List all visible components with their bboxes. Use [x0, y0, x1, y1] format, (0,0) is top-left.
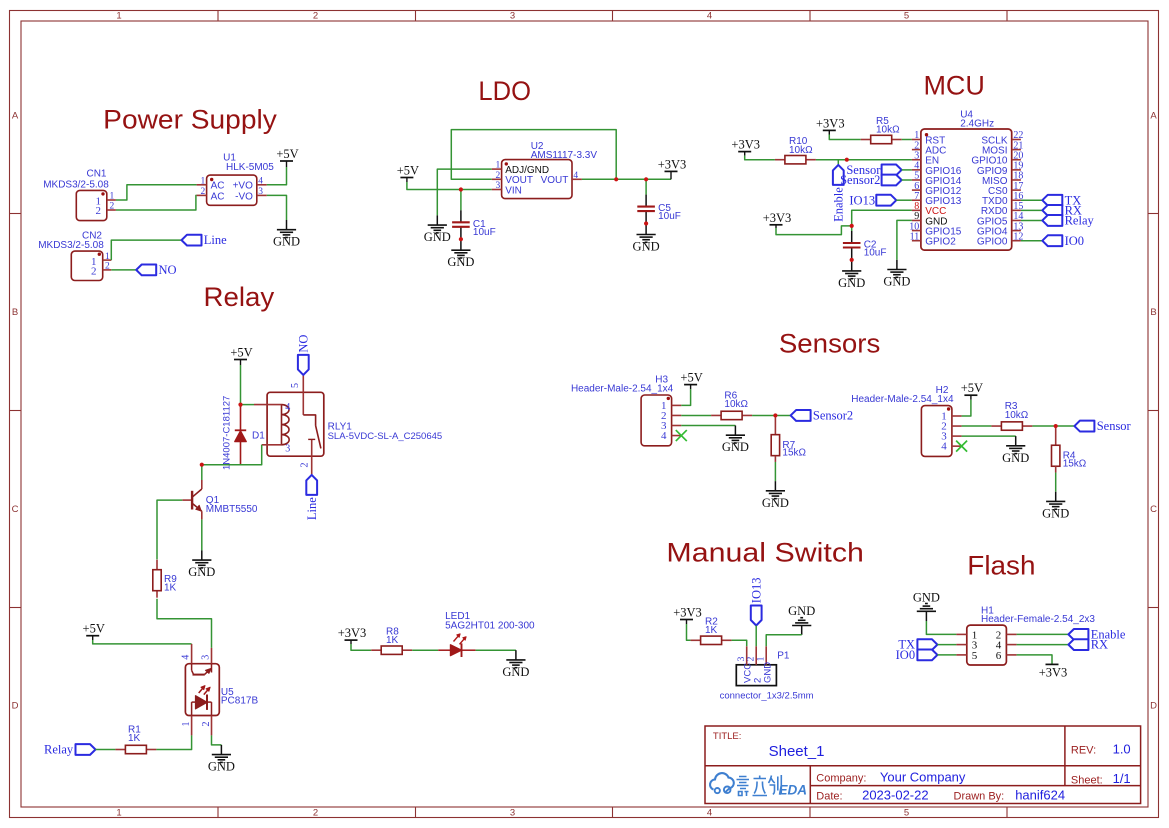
net flag IO0: [917, 650, 937, 661]
svg-text:+3V3: +3V3: [816, 116, 845, 130]
H2 pin 4 no-connect X: [956, 441, 967, 452]
junction: [200, 463, 204, 467]
svg-text:3: 3: [258, 187, 263, 197]
svg-text:EDA: EDA: [779, 783, 808, 798]
junction: [238, 403, 242, 407]
svg-text:hanif624: hanif624: [1015, 788, 1065, 803]
U4 pin 9 GND: [912, 219, 921, 221]
svg-text:2: 2: [91, 266, 97, 278]
net flag Line: [182, 235, 202, 246]
power flag +5V: [400, 177, 413, 179]
svg-text:2: 2: [313, 10, 318, 21]
wire H2.2 to R3: [962, 425, 992, 427]
wire U4.14 GPIO5 to Relay: [1021, 219, 1042, 221]
net flag Line: [306, 475, 317, 495]
svg-text:+3V3: +3V3: [731, 138, 760, 152]
U5 pin 1: [191, 716, 193, 736]
CN1 pin 2: [107, 209, 116, 211]
svg-text:1N4007-C181127: 1N4007-C181127: [222, 396, 233, 470]
svg-text:3: 3: [510, 10, 515, 21]
net flag IO13: [876, 195, 896, 206]
ground GND: [645, 224, 647, 225]
ground GND: [1015, 436, 1017, 446]
U4 pin 14 GPIO5: [1012, 219, 1021, 221]
wire R2 to P1.3: [732, 640, 747, 646]
svg-text:B: B: [1150, 307, 1156, 318]
wire GND to P1.1: [801, 626, 803, 635]
U4 pin 4 GPIO16: [912, 169, 921, 171]
svg-text:GND: GND: [913, 591, 940, 605]
wire +5V to U2.3 VIN: [407, 182, 492, 190]
svg-text:Relay: Relay: [1065, 214, 1095, 228]
wire IO0 to H1.5: [937, 654, 956, 656]
U1 pin 3 -VO: [257, 194, 267, 196]
svg-text:3: 3: [201, 655, 212, 660]
svg-text:VOUT: VOUT: [541, 175, 569, 186]
U5 pin 3: [211, 648, 213, 664]
H1 pin 2: [1006, 633, 1016, 635]
wire U2.1 ADJ to GND: [437, 169, 492, 215]
U4 pin 19 GPIO9: [1012, 169, 1021, 171]
power flag +3V3: [345, 639, 358, 641]
svg-text:10uF: 10uF: [473, 227, 496, 238]
svg-text:5: 5: [290, 383, 301, 388]
svg-text:1: 1: [201, 176, 206, 186]
wire R10 to U4.3 EN: [816, 159, 912, 161]
svg-text:10kΩ: 10kΩ: [1005, 410, 1029, 421]
svg-text:2: 2: [300, 463, 311, 468]
wire U4.9 GND to ground: [897, 220, 912, 259]
junction: [459, 237, 463, 241]
svg-text:3: 3: [510, 807, 515, 818]
svg-text:TITLE:: TITLE:: [713, 731, 742, 742]
svg-text:1: 1: [181, 722, 192, 727]
H3 pin 3: [672, 425, 682, 427]
H1 pin 5: [956, 654, 966, 656]
wire H3.1 to +5V: [681, 389, 690, 405]
U4 pin 18 MISO: [1012, 179, 1021, 181]
ground GND: [774, 481, 776, 491]
wire R3 to Sensor: [1032, 425, 1074, 427]
svg-text:Sheet:: Sheet:: [1071, 775, 1103, 787]
svg-text:+3V3: +3V3: [658, 157, 687, 171]
ground GND: [460, 239, 462, 240]
net flag RX: [1068, 639, 1088, 650]
svg-text:D: D: [1150, 701, 1157, 712]
svg-text:GND: GND: [633, 240, 660, 254]
svg-text:CN1: CN1: [86, 169, 106, 180]
net flag Sensor: [882, 165, 902, 176]
junction: [644, 221, 648, 225]
net flag Sensor: [1074, 421, 1094, 432]
H3 pin 4: [672, 435, 682, 437]
svg-text:GND: GND: [424, 230, 451, 244]
wire Relay to R1: [96, 749, 116, 751]
wire U1.3 to GND: [267, 195, 287, 220]
wire TX to H1.3: [937, 644, 956, 646]
RLY1 coil: [281, 405, 283, 445]
wire H3.3 to GND: [681, 425, 735, 427]
svg-text:Header-Female-2.54_2x3: Header-Female-2.54_2x3: [981, 614, 1095, 625]
svg-text:1K: 1K: [386, 635, 399, 646]
svg-text:NO: NO: [159, 263, 177, 277]
svg-text:3: 3: [496, 181, 501, 191]
CN2 pin 2: [103, 269, 112, 271]
capacitor C1 10uF: [460, 190, 462, 211]
wire R9 to U5.3: [157, 599, 212, 648]
wire +3V3 to R5: [829, 135, 860, 140]
wire IO13 to P1.2: [755, 626, 757, 647]
U5 led: [191, 702, 193, 715]
svg-text:Sheet_1: Sheet_1: [769, 743, 825, 760]
svg-text:IO13: IO13: [749, 577, 763, 603]
diode D1 1N4007-C181127: [240, 405, 242, 431]
wire Q1 base to R9: [157, 500, 182, 559]
H3 pin 4 no-connect X: [676, 430, 687, 441]
capacitor C2 10uF: [851, 226, 853, 231]
U4 pin 2 ADC: [912, 149, 921, 151]
svg-text:+5V: +5V: [230, 346, 252, 360]
RLY1 contact pin 2: [311, 439, 313, 475]
svg-text:IO0: IO0: [896, 648, 915, 662]
CN2 pin 1: [103, 259, 112, 261]
U5 opto arrows: [199, 687, 204, 693]
svg-text:5: 5: [972, 650, 978, 662]
resistor R1 1K: [115, 749, 125, 751]
svg-text:Company:: Company:: [816, 773, 866, 785]
RLY1 coil pin 3: [262, 444, 282, 446]
svg-text:AC: AC: [211, 191, 225, 202]
svg-text:Enable: Enable: [831, 187, 845, 222]
svg-text:Sensor: Sensor: [1097, 419, 1132, 433]
net flag RX: [1042, 205, 1062, 216]
power flag +5V: [280, 160, 293, 162]
wire R1 to U5.1: [156, 735, 191, 749]
svg-text:1K: 1K: [164, 583, 177, 594]
svg-text:2: 2: [747, 656, 757, 661]
H1 pin 3: [956, 644, 966, 646]
svg-text:1: 1: [105, 252, 110, 262]
U5 phototransistor: [191, 664, 193, 671]
junction: [459, 187, 463, 191]
svg-text:GND: GND: [722, 440, 749, 454]
svg-text:Date:: Date:: [816, 791, 842, 803]
wire coil pin3 to Q1 collector: [202, 445, 262, 465]
wire R4 to GND: [1055, 473, 1057, 492]
svg-text:Sensor2: Sensor2: [840, 173, 880, 187]
svg-text:Line: Line: [204, 233, 227, 247]
P1 pin 1 GND: [765, 646, 767, 665]
svg-text:10kΩ: 10kΩ: [789, 145, 813, 156]
svg-text:NO: NO: [296, 335, 310, 353]
wire Q1 emitter to GND: [201, 519, 203, 550]
ground GND: [896, 260, 898, 270]
wire +3V3 to R2: [687, 624, 691, 640]
svg-text:C: C: [1150, 504, 1157, 515]
wire U4.12 GPIO0 to IO0: [1021, 240, 1042, 242]
svg-text:2: 2: [96, 205, 102, 217]
net flag IO0: [1042, 235, 1062, 246]
svg-text:1: 1: [116, 10, 121, 21]
svg-text:GND: GND: [1002, 451, 1029, 465]
svg-text:GND: GND: [763, 662, 774, 683]
svg-text:AC: AC: [211, 181, 225, 192]
svg-text:HLK-5M05: HLK-5M05: [226, 162, 274, 173]
wire CN2.1 to Line: [111, 240, 181, 260]
U1 pin 4 +VO: [257, 184, 267, 186]
svg-text:LDO: LDO: [478, 76, 531, 106]
resistor R2 1K: [691, 639, 701, 641]
svg-text:2: 2: [496, 171, 501, 181]
H2 pin 4: [952, 445, 962, 447]
U5 pin 2: [211, 716, 213, 736]
junction: [644, 177, 648, 181]
svg-text:MKDS3/2-5.08: MKDS3/2-5.08: [38, 240, 104, 251]
ground GND: [1055, 492, 1057, 502]
svg-text:2: 2: [201, 187, 206, 197]
U4 pin 20 GPIO10: [1012, 159, 1021, 161]
power flag +3V3: [738, 151, 751, 153]
wire H2.1 to +5V: [962, 400, 971, 416]
U4 pin 3 EN: [912, 159, 921, 161]
svg-text:-VO: -VO: [235, 191, 253, 202]
resistor R6 10kΩ: [711, 414, 721, 416]
resistor R8 1K: [371, 649, 381, 651]
svg-text:GND: GND: [273, 235, 300, 249]
resistor R9 1K: [156, 560, 158, 570]
ground GND: [220, 745, 222, 755]
junction: [845, 158, 849, 162]
svg-text:PC817B: PC817B: [221, 696, 259, 707]
power flag +3V3: [680, 619, 693, 621]
svg-text:SLA-5VDC-SL-A_C250645: SLA-5VDC-SL-A_C250645: [328, 431, 443, 442]
net flag NO: [298, 355, 309, 375]
svg-text:B: B: [12, 307, 18, 318]
svg-text:4: 4: [573, 171, 578, 181]
net flag Sensor2: [882, 175, 902, 186]
LED1 arrows: [454, 634, 460, 641]
svg-text:Flash: Flash: [967, 551, 1035, 581]
svg-text:Sensor2: Sensor2: [813, 409, 853, 423]
svg-text:6: 6: [996, 650, 1002, 662]
U4 pin 22 SCLK: [1012, 139, 1021, 141]
H3 pin 1: [672, 404, 682, 406]
wire R5 to U4.1 RST: [902, 139, 912, 141]
svg-text:GND: GND: [883, 275, 910, 289]
U4 pin 5 GPIO14: [912, 179, 921, 181]
power flag +3V3: [770, 224, 783, 226]
U2 pin 1 ADJ/GND: [492, 168, 502, 170]
svg-text:Header-Male-2.54_1x4: Header-Male-2.54_1x4: [571, 384, 674, 395]
ground GND: [851, 260, 853, 261]
wire +3V3 to VCC net: [775, 225, 777, 228]
U4 pin 13 GPIO4: [1012, 230, 1021, 232]
resistor R10 10k: [775, 159, 785, 161]
U4 pin 1 RST: [912, 139, 921, 141]
svg-text:GND: GND: [188, 565, 215, 579]
svg-text:4: 4: [181, 655, 192, 660]
U4 pin 12 GPIO0: [1012, 240, 1021, 242]
RLY1 coil pin 4: [254, 404, 282, 406]
svg-text:5: 5: [904, 807, 909, 818]
U2 pin 3 VIN: [492, 189, 502, 191]
svg-text:Your Company: Your Company: [880, 770, 966, 785]
svg-text:RX: RX: [1091, 638, 1108, 652]
svg-text:10kΩ: 10kΩ: [724, 399, 748, 410]
svg-text:10uF: 10uF: [658, 211, 681, 222]
svg-text:IO13: IO13: [849, 193, 875, 207]
H2 pin 2: [952, 425, 962, 427]
svg-text:4: 4: [707, 807, 712, 818]
svg-text:+5V: +5V: [83, 622, 105, 636]
transistor Q1 MMBT5550: [201, 465, 203, 480]
U4 pin 16 TXD0: [1012, 199, 1021, 201]
svg-text:2023-02-22: 2023-02-22: [862, 788, 929, 803]
svg-text:Relay: Relay: [204, 282, 275, 312]
svg-text:10uF: 10uF: [864, 248, 887, 259]
svg-text:+3V3: +3V3: [763, 211, 792, 225]
svg-text:1: 1: [757, 656, 767, 661]
U4 pin 17 CS0: [1012, 189, 1021, 191]
svg-text:4: 4: [285, 402, 290, 413]
U4 pin 7 GPIO13: [912, 199, 921, 201]
junction: [850, 224, 854, 228]
U2 pin 2 VOUT: [492, 178, 502, 180]
RLY1 contact blade: [316, 426, 321, 449]
wire +3V3 to R8: [351, 644, 371, 650]
svg-text:1K: 1K: [705, 625, 718, 636]
svg-text:1: 1: [496, 161, 501, 171]
svg-text:C: C: [12, 504, 19, 515]
H2 pin 3: [952, 435, 962, 437]
wire H2.3 to GND: [962, 435, 1016, 437]
ground GND: [436, 215, 438, 225]
svg-text:1: 1: [116, 807, 121, 818]
svg-text:5AG2HT01 200-300: 5AG2HT01 200-300: [445, 621, 535, 632]
net flag Enable: [1068, 629, 1088, 640]
svg-text:A: A: [12, 111, 19, 122]
wire CN2.2 to NO: [111, 269, 136, 271]
wire R6 to Sensor2: [752, 414, 791, 416]
svg-text:2: 2: [110, 202, 115, 212]
svg-text:GND: GND: [447, 255, 474, 269]
H2 pin 1: [952, 415, 962, 417]
svg-text:5: 5: [904, 10, 909, 21]
svg-text:MMBT5550: MMBT5550: [206, 504, 258, 515]
svg-text:GPIO2: GPIO2: [925, 237, 956, 248]
wire U4.8 VCC to +3V3: [852, 210, 912, 226]
wire R7 to GND: [774, 462, 776, 481]
svg-text:A: A: [1150, 111, 1157, 122]
wire U4.16 TXD0 to TX: [1021, 199, 1042, 201]
svg-text:Header-Male-2.54_1x4: Header-Male-2.54_1x4: [851, 394, 954, 405]
svg-text:Sensors: Sensors: [779, 329, 881, 359]
resistor R5 10k: [861, 139, 871, 141]
svg-text:Drawn By:: Drawn By:: [954, 791, 1005, 803]
resistor R7 15kΩ: [774, 415, 776, 434]
U4 pin 10 GPIO15: [912, 230, 921, 232]
power flag +3V3: [1046, 663, 1059, 665]
svg-text:GND: GND: [208, 760, 235, 774]
wire junction to Enable flag: [838, 160, 847, 165]
svg-text:4: 4: [661, 430, 667, 442]
wire H1.6 to +3V3: [1017, 655, 1052, 665]
net flag Relay: [76, 744, 96, 755]
power flag +3V3: [665, 170, 678, 172]
wire R8 to LED1: [412, 649, 438, 651]
ground GND: [792, 625, 811, 627]
wire U5.2 to GND: [212, 735, 222, 745]
ground GND: [917, 610, 936, 612]
svg-text:+5V: +5V: [276, 147, 298, 161]
svg-text:4: 4: [258, 176, 263, 186]
svg-text:IO0: IO0: [1065, 234, 1084, 248]
svg-text:Relay: Relay: [44, 743, 74, 757]
resistor R3 10kΩ: [991, 425, 1001, 427]
wire H3.2 to R6: [681, 414, 711, 416]
net flag Relay: [1042, 215, 1062, 226]
svg-text:GND: GND: [788, 604, 815, 618]
wire U2.4 to +3V3: [582, 178, 671, 180]
ground GND: [201, 550, 203, 560]
svg-text:Line: Line: [305, 497, 319, 520]
svg-text:GND: GND: [502, 665, 529, 679]
wire H1.4 to RX: [1017, 644, 1069, 646]
wire U1.4 to +5V: [267, 167, 287, 185]
wire U4.15 RXD0 to RX: [1021, 209, 1042, 211]
svg-text:+3V3: +3V3: [1039, 665, 1068, 679]
svg-text:P1: P1: [777, 651, 790, 662]
svg-text:1.0: 1.0: [1113, 742, 1131, 757]
power flag +5V: [86, 635, 99, 637]
svg-text:3: 3: [737, 656, 747, 661]
P1 pin 2: [755, 646, 757, 665]
wire CN1.2 to U1.2: [116, 195, 197, 210]
RLY1 contact fixed lead: [303, 415, 315, 426]
svg-text:D: D: [12, 701, 19, 712]
svg-text:15kΩ: 15kΩ: [782, 448, 806, 459]
wire Sensor2 to U4.5: [902, 179, 912, 181]
U4 pin 21 MOSI: [1012, 149, 1021, 151]
svg-text:Power Supply: Power Supply: [103, 105, 277, 135]
net flag Sensor2: [791, 410, 811, 421]
junction: [850, 258, 854, 262]
net flag Enable: [833, 165, 844, 185]
svg-text:2: 2: [313, 807, 318, 818]
svg-text:3: 3: [285, 444, 290, 455]
wire U2.2 loop to output: [451, 130, 616, 180]
ground GND: [515, 650, 517, 660]
svg-text:+3V3: +3V3: [673, 606, 702, 620]
U5 pin 4: [191, 644, 193, 664]
net flag IO13: [751, 606, 762, 626]
svg-text:4: 4: [707, 10, 712, 21]
svg-text:+5V: +5V: [961, 381, 983, 395]
title block: [705, 726, 1141, 804]
ground GND: [734, 426, 736, 436]
svg-text:+5V: +5V: [397, 164, 419, 178]
svg-text:MCU: MCU: [923, 70, 985, 100]
svg-text:+VO: +VO: [233, 181, 254, 192]
net flag NO: [136, 265, 156, 276]
H1 pin 1: [956, 633, 966, 635]
svg-text:2.4GHz: 2.4GHz: [960, 118, 994, 129]
svg-text:+5V: +5V: [680, 371, 702, 385]
svg-text:10kΩ: 10kΩ: [876, 125, 900, 136]
svg-text:GND: GND: [1042, 506, 1069, 520]
junction: [614, 177, 618, 181]
wire H1.2 to Enable: [1017, 633, 1069, 635]
